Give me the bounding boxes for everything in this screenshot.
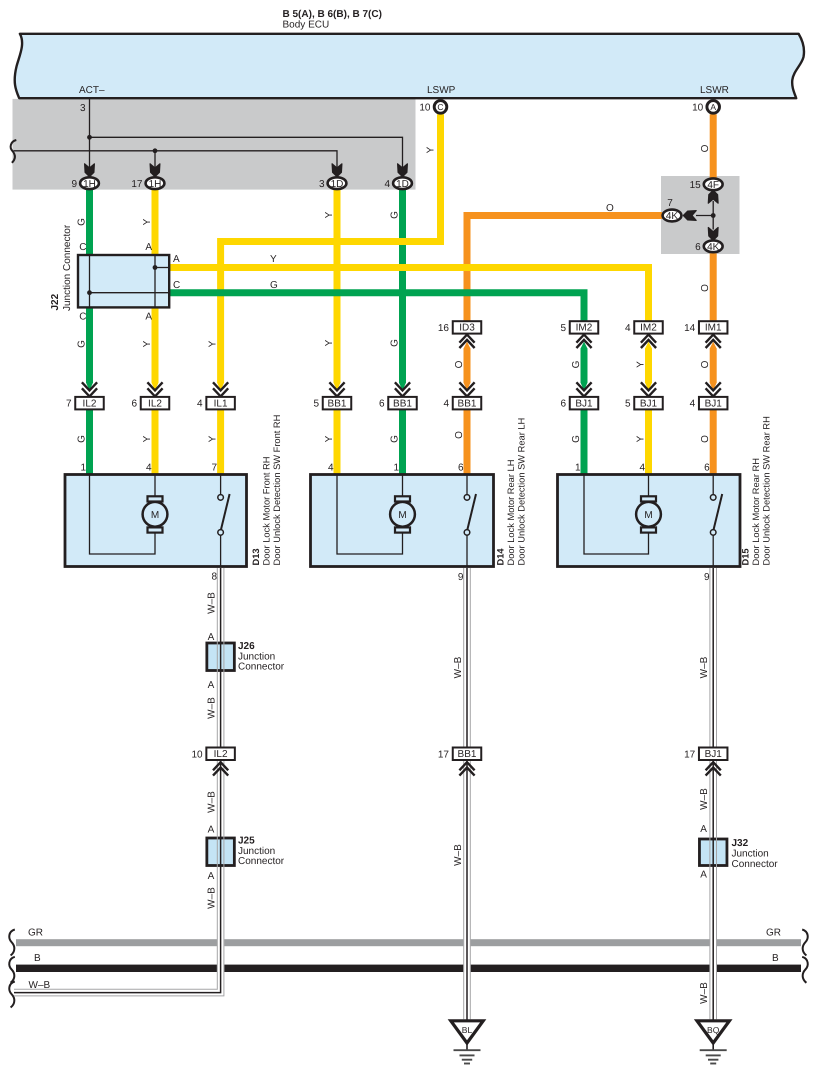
svg-text:Y: Y [426, 146, 437, 153]
arrow up into 4F [708, 190, 718, 203]
wire W-B from D14 pin9 to ground BL [453, 568, 470, 1020]
wire G IM2-5 to BJ1-6 [571, 342, 588, 391]
svg-text:4: 4 [197, 399, 203, 410]
wire O from 4K-7 to ID3-16 [467, 203, 662, 321]
svg-text:M: M [644, 510, 652, 521]
svg-text:Y: Y [636, 435, 647, 442]
svg-text:6: 6 [131, 399, 137, 410]
svg-text:1H: 1H [83, 179, 96, 190]
connector 4K pin 7 [663, 198, 682, 222]
svg-text:1D: 1D [396, 179, 409, 190]
connector IM2 pin 5 [560, 321, 598, 348]
arrow into 1D-3 [332, 164, 342, 177]
svg-text:G: G [390, 211, 401, 219]
svg-text:Door Unlock Detection SW Rear: Door Unlock Detection SW Rear RH [762, 416, 772, 565]
svg-text:8: 8 [211, 572, 217, 583]
svg-text:IL2: IL2 [83, 398, 97, 409]
svg-text:Connector: Connector [238, 856, 285, 867]
connector LSWP C pin 10 [419, 101, 446, 114]
svg-text:O: O [454, 360, 465, 368]
connector BJ1 pin 6 [560, 382, 598, 409]
svg-text:1D: 1D [331, 179, 344, 190]
connector LSWR A pin 10 [692, 101, 719, 114]
svg-text:W–B: W–B [207, 887, 218, 909]
wire G from 1D-4 to BB1-6 [390, 189, 407, 391]
svg-text:G: G [77, 218, 88, 226]
component D15 Door Lock Motor Rear RH [558, 463, 741, 567]
svg-text:7: 7 [66, 399, 72, 410]
svg-text:9: 9 [704, 572, 710, 583]
connector IL2 pin 7 [66, 382, 104, 409]
connector BB1 pin 6 [379, 382, 417, 409]
svg-text:BJ1: BJ1 [575, 398, 593, 409]
svg-text:Y: Y [142, 340, 153, 347]
connector IL2 pin 6 [131, 382, 169, 409]
svg-text:4K: 4K [707, 242, 720, 253]
svg-text:BB1: BB1 [328, 398, 347, 409]
svg-text:7: 7 [212, 463, 218, 474]
svg-text:10: 10 [692, 103, 704, 114]
svg-text:Y: Y [324, 211, 335, 218]
connector IL1 pin 4 [197, 382, 235, 409]
arrow into 1H-17 [150, 164, 160, 177]
svg-text:Body ECU: Body ECU [283, 20, 330, 31]
svg-text:10: 10 [191, 749, 203, 760]
svg-text:4: 4 [384, 179, 390, 190]
label D13 [251, 415, 282, 566]
connector BB1 pin 5 [313, 382, 351, 409]
svg-text:J32: J32 [732, 838, 749, 849]
node on ACT- line [87, 135, 92, 140]
svg-text:4: 4 [639, 463, 645, 474]
svg-text:O: O [454, 431, 465, 439]
svg-text:1: 1 [393, 463, 399, 474]
ground BL [451, 1021, 483, 1064]
arrow into 1H-9 [85, 164, 95, 177]
svg-text:G: G [390, 435, 401, 443]
wire O BJ1-4 to D15 pin6 [700, 409, 713, 474]
svg-text:4: 4 [328, 463, 334, 474]
svg-text:9: 9 [71, 179, 77, 190]
svg-text:W–B: W–B [207, 592, 218, 614]
svg-text:B 5(A), B 6(B), B 7(C): B 5(A), B 6(B), B 7(C) [283, 9, 382, 20]
bus GR [9, 928, 807, 956]
label Body ECU title [283, 9, 382, 31]
svg-text:GR: GR [28, 928, 43, 939]
svg-text:W–B: W–B [699, 788, 710, 810]
connector ID3 pin 16 [438, 321, 481, 348]
motor M in D14 [390, 496, 415, 532]
svg-text:ID3: ID3 [459, 323, 475, 334]
svg-text:A: A [700, 824, 707, 835]
svg-text:ACT–: ACT– [79, 85, 105, 96]
svg-text:D15: D15 [741, 548, 751, 565]
svg-text:BL: BL [462, 1025, 473, 1035]
wire Y horizontal J22-A to IM2-4 [169, 254, 648, 321]
wire G BB1-6 to D14 pin1 [390, 409, 403, 474]
svg-text:Junction: Junction [732, 849, 769, 860]
svg-text:4K: 4K [666, 211, 679, 222]
svg-text:G: G [77, 435, 88, 443]
svg-text:G: G [77, 340, 88, 348]
connector IL2 pin 10 on W-B [191, 748, 234, 776]
svg-text:5: 5 [560, 323, 566, 334]
component Body ECU B5(A) B6(B) B7(C) [15, 34, 804, 98]
wire G IL2-7 to D13 pin1 [77, 307, 94, 474]
svg-text:BQ: BQ [707, 1025, 720, 1035]
arrow down into 4K-6 [708, 228, 718, 241]
svg-text:IM2: IM2 [576, 323, 593, 334]
svg-text:G: G [571, 435, 582, 443]
svg-text:O: O [700, 435, 711, 443]
wire G from 1H-9 to J22 [77, 189, 90, 255]
svg-text:6: 6 [704, 463, 710, 474]
connector BB1 pin 4 [443, 382, 481, 409]
svg-text:Connector: Connector [238, 662, 285, 673]
svg-text:5: 5 [625, 399, 631, 410]
wire ACT- pin3 vertical [80, 98, 90, 172]
svg-text:A: A [700, 870, 707, 881]
switch in D14 [464, 475, 476, 567]
svg-text:IL1: IL1 [214, 398, 228, 409]
svg-text:Y: Y [142, 218, 153, 225]
svg-text:D13: D13 [251, 548, 261, 565]
svg-text:C: C [173, 280, 180, 291]
svg-text:3: 3 [319, 179, 325, 190]
svg-text:Door Lock Motor Rear RH: Door Lock Motor Rear RH [751, 458, 761, 565]
svg-text:9: 9 [458, 572, 464, 583]
switch in D15 [710, 475, 722, 567]
junction connector J22 [50, 224, 169, 322]
svg-text:BJ1: BJ1 [705, 398, 723, 409]
svg-text:A: A [208, 871, 215, 882]
svg-text:W–B: W–B [453, 844, 464, 866]
svg-text:Connector: Connector [732, 859, 779, 870]
junction connector J25 [207, 836, 285, 868]
svg-text:4: 4 [443, 399, 449, 410]
svg-text:W–B: W–B [699, 982, 710, 1004]
svg-text:Y: Y [324, 435, 335, 442]
wire O from LSWR-A to 4F [700, 114, 713, 177]
svg-text:6: 6 [695, 242, 701, 253]
svg-text:Y: Y [636, 361, 647, 368]
svg-text:IM1: IM1 [705, 323, 722, 334]
svg-text:1: 1 [575, 463, 581, 474]
svg-text:O: O [606, 203, 614, 214]
wire W-B from D13 pin8 to left edge [9, 568, 220, 1008]
svg-text:4: 4 [146, 463, 152, 474]
node on branch line [153, 148, 158, 172]
svg-text:IL2: IL2 [148, 398, 162, 409]
shield gray area right [661, 176, 740, 254]
svg-text:Y: Y [208, 435, 219, 442]
svg-text:W–B: W–B [207, 791, 218, 813]
svg-text:6: 6 [560, 399, 566, 410]
svg-text:Y: Y [208, 340, 219, 347]
svg-text:W–B: W–B [453, 656, 464, 678]
svg-text:A: A [710, 102, 716, 112]
wire G horizontal J22-C to IM2-5 [169, 280, 584, 321]
svg-text:Y: Y [142, 435, 153, 442]
connector BJ1 pin 5 [625, 382, 663, 409]
svg-text:A: A [208, 825, 215, 836]
svg-text:C: C [79, 312, 86, 323]
wire break squiggle left [11, 140, 17, 163]
connector BB1 pin 17 on W-B [438, 748, 481, 776]
svg-text:J26: J26 [238, 641, 255, 652]
svg-text:5: 5 [313, 399, 319, 410]
connector 1D pin 3 [319, 177, 346, 190]
connector BJ1 pin 4 [690, 382, 728, 409]
arrow into 1D-4 [398, 164, 408, 177]
component D14 Door Lock Motor Rear LH [311, 463, 494, 567]
svg-text:O: O [700, 144, 711, 152]
wire W-B right column stripes [699, 568, 716, 1020]
wire Y BJ1-5 to D15 pin4 [636, 409, 649, 474]
wire branch to 1D-4 [90, 137, 403, 172]
svg-text:7: 7 [667, 198, 673, 209]
connector BJ1 pin 17 on W-B [684, 748, 727, 776]
wire O IM1 to BJ1-4 [700, 342, 717, 391]
svg-text:16: 16 [438, 323, 450, 334]
junction connector J26 [207, 641, 285, 673]
svg-text:BJ1: BJ1 [640, 398, 658, 409]
svg-text:LSWR: LSWR [700, 85, 729, 96]
svg-text:10: 10 [419, 103, 431, 114]
wire Y BB1-5 to D14 pin4 [324, 409, 337, 474]
wire Y IM2-4 to BJ1-5 [636, 342, 653, 391]
wire Y from 1D-3 to BB1-5 [324, 189, 341, 391]
wire W-B left column stripes [14, 568, 224, 996]
connector 1H pin 9 [71, 177, 98, 190]
svg-text:6: 6 [458, 463, 464, 474]
wire links inside gray2 [696, 201, 713, 230]
svg-text:C: C [437, 102, 443, 112]
wire O from 4K-6 to IM1-14 [700, 253, 713, 321]
svg-text:M: M [398, 510, 406, 521]
wire Y from 1H-17 to J22 [142, 189, 155, 255]
arrow left into 4K-7 [683, 211, 696, 221]
wire O BB1-4 to D14 pin6 [454, 409, 467, 474]
svg-text:LSWP: LSWP [427, 85, 456, 96]
svg-text:G: G [270, 280, 278, 291]
connector 4F pin 15 [690, 178, 723, 191]
node at 4K junction [711, 213, 716, 218]
svg-text:A: A [145, 242, 152, 253]
motor M in D13 [143, 496, 168, 532]
bus B [9, 953, 807, 983]
wire branch from left to 1D-3 [14, 151, 338, 172]
ground BQ [697, 1021, 729, 1064]
svg-text:Door Lock Motor Front RH: Door Lock Motor Front RH [262, 456, 272, 565]
motor M in D15 [636, 496, 661, 532]
component D13 Door Lock Motor Front RH [65, 463, 247, 567]
wire O ID3 to BB1-4 [454, 342, 471, 391]
svg-text:B: B [34, 953, 41, 964]
svg-text:W–B: W–B [207, 697, 218, 719]
svg-text:GR: GR [766, 928, 781, 939]
svg-text:Door Unlock Detection SW Rear: Door Unlock Detection SW Rear LH [517, 418, 527, 566]
svg-text:Y: Y [324, 339, 335, 346]
connector 1H pin 17 [131, 177, 164, 190]
svg-text:A: A [145, 312, 152, 323]
svg-text:O: O [700, 284, 711, 292]
svg-text:G: G [571, 360, 582, 368]
connector 1D pin 4 [384, 177, 411, 190]
svg-text:O: O [700, 360, 711, 368]
wire Y from LSWP-C to IL1-4 [208, 114, 441, 391]
wire W-B from D15 pin9 to ground BQ [704, 568, 713, 1019]
svg-text:17: 17 [684, 749, 696, 760]
svg-text:1: 1 [80, 463, 86, 474]
svg-text:D14: D14 [496, 548, 506, 566]
label D15 [741, 416, 772, 565]
svg-text:17: 17 [131, 179, 143, 190]
connector IM1 pin 14 [684, 321, 727, 348]
connector IM2 pin 4 [625, 321, 663, 348]
wire Y IL2-6 to D13 pin4 [142, 307, 159, 474]
svg-text:1H: 1H [149, 179, 162, 190]
label D14 [496, 418, 527, 566]
svg-text:BJ1: BJ1 [705, 749, 723, 760]
svg-text:4: 4 [625, 323, 631, 334]
svg-text:A: A [208, 680, 215, 691]
svg-text:W–B: W–B [699, 656, 710, 678]
shield gray area left [13, 99, 416, 190]
wire G vertical into IM2-5 [581, 293, 588, 322]
svg-text:4F: 4F [707, 180, 719, 191]
svg-text:G: G [390, 339, 401, 347]
svg-text:3: 3 [80, 103, 86, 114]
svg-text:Junction Connector: Junction Connector [62, 224, 73, 311]
svg-text:B: B [772, 953, 779, 964]
switch in D13 [218, 475, 230, 567]
wire Y vertical into IM2-4 [645, 268, 652, 322]
svg-text:A: A [173, 254, 180, 265]
svg-text:C: C [79, 242, 86, 253]
svg-text:BB1: BB1 [458, 749, 477, 760]
junction connector J32 [699, 838, 778, 870]
wire G BJ1-6 to D15 pin1 [571, 409, 584, 474]
svg-text:Y: Y [270, 254, 277, 265]
svg-text:A: A [208, 632, 215, 643]
svg-text:4: 4 [690, 399, 696, 410]
svg-text:Door Unlock Detection SW Front: Door Unlock Detection SW Front RH [272, 415, 282, 566]
svg-text:IL2: IL2 [214, 749, 228, 760]
svg-text:BB1: BB1 [393, 398, 412, 409]
svg-text:6: 6 [379, 399, 385, 410]
svg-text:J25: J25 [238, 836, 255, 847]
svg-text:15: 15 [690, 180, 702, 191]
svg-text:M: M [151, 510, 159, 521]
connector 4K pin 6 [695, 240, 722, 253]
svg-text:IM2: IM2 [640, 323, 657, 334]
svg-text:J22: J22 [50, 293, 61, 310]
wire Y IL1-4 to D13 pin7 [208, 409, 221, 474]
svg-text:Door Lock Motor Rear LH: Door Lock Motor Rear LH [506, 460, 516, 566]
svg-text:14: 14 [684, 323, 696, 334]
svg-text:BB1: BB1 [458, 398, 477, 409]
svg-text:17: 17 [438, 749, 450, 760]
